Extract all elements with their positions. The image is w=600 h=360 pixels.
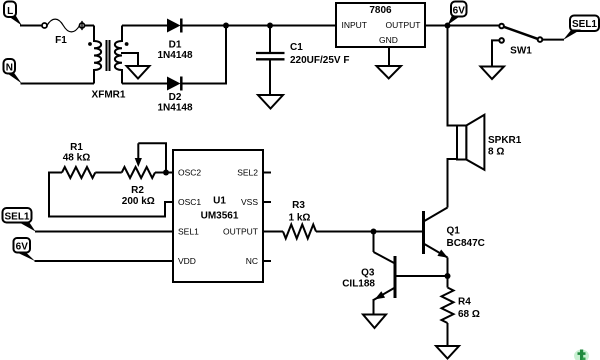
- svg-text:NC: NC: [246, 256, 258, 266]
- diode D2: [167, 77, 181, 91]
- svg-text:OUTPUT: OUTPUT: [386, 20, 421, 30]
- wire 7806 OUTPUT to SW1: [425, 25, 499, 27]
- node SEL1 (top right): [563, 16, 599, 41]
- svg-text:L: L: [7, 6, 13, 17]
- transformer XFMR1: [88, 26, 138, 84]
- svg-text:SEL1: SEL1: [178, 227, 199, 237]
- wire D1 to top rail: [181, 25, 336, 27]
- label Q3: [342, 268, 375, 290]
- resistor R4: [442, 276, 454, 346]
- label R2: [122, 185, 155, 207]
- svg-text:220UF/25V F: 220UF/25V F: [290, 55, 349, 66]
- junction (D2 / rail): [223, 23, 229, 29]
- wire 7806 GND to ground: [388, 47, 390, 66]
- svg-text:SEL1: SEL1: [4, 211, 29, 222]
- svg-text:D1: D1: [169, 40, 182, 51]
- svg-text:BC847C: BC847C: [447, 238, 485, 249]
- ground (7806): [377, 66, 402, 79]
- svg-text:CIL188: CIL188: [342, 279, 375, 290]
- watermark t: [574, 350, 589, 360]
- junction (Q1 emitter / Q3 base / R4): [445, 273, 451, 279]
- label R4: [458, 297, 480, 321]
- svg-text:GND: GND: [379, 35, 398, 45]
- svg-text:1N4148: 1N4148: [157, 103, 192, 114]
- svg-text:OUTPUT: OUTPUT: [223, 227, 258, 237]
- regulator 7806: [336, 3, 425, 47]
- wire D2 to top rail: [181, 26, 226, 84]
- wire R3 to Q1 base: [316, 231, 424, 233]
- ground (R4): [436, 346, 459, 359]
- label R1: [63, 142, 90, 164]
- ground (C1): [258, 95, 283, 109]
- svg-text:SPKR1: SPKR1: [488, 135, 522, 146]
- wire L to fuse: [20, 25, 42, 27]
- svg-text:48 kΩ: 48 kΩ: [63, 153, 90, 164]
- pin VSS: [241, 197, 271, 207]
- node SEL1 (left): [3, 208, 36, 232]
- pin SEL2: [237, 168, 271, 178]
- label SPKR1: [488, 135, 522, 158]
- svg-text:D2: D2: [169, 92, 182, 103]
- wire Q3 collector to junction: [373, 232, 375, 253]
- node 6V (top): [448, 2, 467, 26]
- wire secondary top to D1: [122, 25, 167, 27]
- wire 6V junction to speaker: [448, 26, 458, 126]
- svg-text:200 kΩ: 200 kΩ: [122, 196, 155, 207]
- svg-text:VSS: VSS: [241, 197, 258, 207]
- svg-text:7806: 7806: [369, 5, 392, 16]
- wire R1 to R2: [95, 172, 121, 174]
- svg-text:INPUT: INPUT: [342, 20, 368, 30]
- svg-text:XFMR1: XFMR1: [92, 90, 126, 101]
- resistor R1: [62, 167, 95, 178]
- ground (transformer tap): [127, 66, 150, 79]
- wire fuse to transformer: [84, 25, 94, 27]
- junction (R2 / OSC2): [163, 170, 169, 176]
- svg-text:1N4148: 1N4148: [157, 50, 192, 61]
- label U1: [201, 195, 239, 221]
- IC U1: [173, 150, 263, 282]
- svg-text:SW1: SW1: [510, 46, 532, 57]
- wire R2 to U1 OSC2: [155, 172, 173, 174]
- svg-text:R3: R3: [292, 200, 305, 211]
- resistor R3: [283, 225, 316, 239]
- svg-text:68 Ω: 68 Ω: [458, 309, 480, 320]
- svg-text:U1: U1: [213, 195, 226, 206]
- node N: [4, 59, 22, 84]
- label C1: [290, 42, 349, 66]
- switch SW1: [499, 24, 542, 43]
- svg-text:6V: 6V: [16, 241, 29, 252]
- svg-text:6V: 6V: [453, 5, 466, 16]
- wire 6V to U1 VDD: [35, 260, 174, 262]
- wire speaker to Q1 collector: [448, 159, 458, 208]
- transistor Q3: [373, 252, 395, 303]
- label D1: [157, 40, 192, 62]
- wire Q3 base to junction: [395, 275, 448, 277]
- svg-text:8 Ω: 8 Ω: [488, 147, 504, 158]
- svg-text:R1: R1: [70, 142, 83, 153]
- node 6V (left): [14, 238, 36, 261]
- junction (6V rail): [445, 23, 451, 29]
- svg-text:Q3: Q3: [361, 268, 375, 279]
- svg-text:VDD: VDD: [178, 256, 196, 266]
- speaker SPKR1: [457, 115, 484, 170]
- svg-text:OSC1: OSC1: [178, 197, 201, 207]
- svg-text:Q1: Q1: [447, 226, 461, 237]
- diode D1: [167, 19, 181, 33]
- svg-text:SEL1: SEL1: [572, 19, 597, 30]
- svg-text:C1: C1: [290, 42, 303, 53]
- junction (R3 / Q3 collector): [371, 229, 377, 235]
- node L: [4, 2, 22, 26]
- ground (SW1): [481, 67, 505, 80]
- svg-text:UM3561: UM3561: [201, 210, 239, 221]
- svg-text:R4: R4: [458, 297, 471, 308]
- svg-text:SEL2: SEL2: [237, 168, 258, 178]
- label R3: [289, 200, 311, 224]
- wire SEL1 to U1: [35, 231, 173, 233]
- svg-text:N: N: [6, 63, 13, 74]
- wire secondary bottom to D2: [122, 83, 167, 85]
- capacitor C1: [256, 26, 285, 96]
- label D2: [157, 92, 192, 114]
- fuse F1: [42, 19, 85, 32]
- svg-text:F1: F1: [55, 35, 67, 46]
- wire SW1 to SEL1: [542, 39, 564, 41]
- wire U1 OUTPUT to R3: [263, 231, 283, 233]
- pin NC: [246, 256, 271, 266]
- potentiometer R2: [122, 143, 166, 178]
- wire Q3 emitter to ground: [373, 299, 375, 315]
- wire N to transformer primary: [21, 83, 95, 85]
- svg-text:OSC2: OSC2: [178, 168, 201, 178]
- label Q1: [447, 226, 485, 250]
- svg-text:1 kΩ: 1 kΩ: [289, 213, 311, 224]
- junction (C1 / rail): [267, 23, 273, 29]
- transistor Q1: [424, 208, 450, 261]
- wire R1 left leg to U1 OSC1: [49, 173, 173, 217]
- wire Q1 emitter to junction: [447, 258, 449, 277]
- ground (Q3): [363, 315, 386, 329]
- wire SW1 unused throw to ground: [492, 40, 499, 66]
- svg-text:R2: R2: [131, 185, 144, 196]
